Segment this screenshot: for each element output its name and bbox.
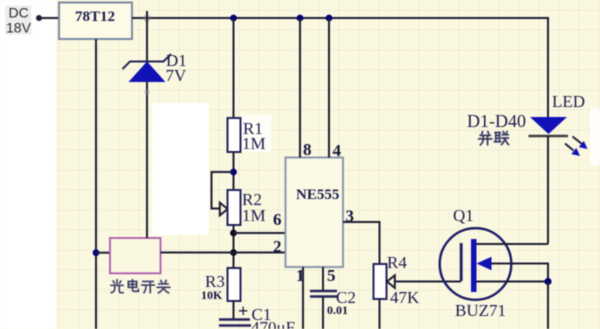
svg-text:18V: 18V	[6, 20, 32, 36]
wire	[233, 301, 235, 319]
svg-text:6: 6	[273, 210, 282, 229]
wire LED cathode to drain	[547, 136, 549, 244]
R2 wiper arrow	[220, 203, 228, 216]
wire	[96, 252, 110, 254]
wire drain	[477, 243, 549, 245]
wire pin 3	[343, 222, 380, 264]
regulator U2 78T12	[59, 3, 132, 40]
wire pin 5	[322, 267, 324, 290]
resistor R1	[228, 118, 241, 152]
svg-text:Q1: Q1	[453, 206, 474, 225]
svg-text:47K: 47K	[390, 288, 420, 307]
svg-text:1M: 1M	[242, 134, 266, 153]
wire pin 6	[234, 232, 286, 234]
node DC input terminal	[36, 15, 42, 21]
transistor Q1 BUZ71	[440, 228, 512, 300]
R4 wiper arrow	[387, 275, 395, 288]
junction	[326, 15, 333, 22]
wire	[379, 299, 381, 329]
IC U1 NE555	[286, 158, 344, 268]
wire	[233, 225, 235, 268]
label C2 0.01	[327, 288, 356, 317]
capacitor C2	[310, 291, 337, 297]
svg-text:78T12: 78T12	[75, 9, 115, 25]
wire pin 2	[161, 252, 286, 254]
label DC 18V	[6, 5, 32, 36]
wire LED anode	[547, 17, 549, 117]
svg-text:1M: 1M	[242, 206, 266, 225]
wire body	[491, 264, 548, 282]
svg-text:8: 8	[303, 140, 312, 159]
resistor R4	[374, 264, 387, 299]
junction	[230, 230, 237, 237]
label 光电开关	[111, 280, 170, 293]
label R3 10K	[201, 272, 225, 302]
label D1 7V	[166, 51, 188, 85]
svg-text:BUZ71: BUZ71	[455, 301, 506, 320]
junction	[93, 249, 100, 256]
photoelectric switch module	[110, 238, 161, 273]
wire R2 wiper loop	[212, 172, 234, 209]
svg-text:DC: DC	[9, 5, 29, 21]
wire	[146, 81, 148, 238]
wire	[547, 282, 549, 329]
wire	[233, 18, 235, 118]
svg-text:3: 3	[346, 207, 355, 226]
svg-text:R4: R4	[387, 253, 407, 272]
wire	[233, 152, 235, 190]
svg-text:7V: 7V	[166, 66, 188, 85]
junction	[230, 249, 237, 256]
junction	[297, 15, 304, 22]
junction	[544, 278, 551, 285]
svg-text:0.01: 0.01	[327, 303, 348, 317]
junction	[230, 169, 237, 176]
wire	[132, 17, 548, 19]
svg-text:1: 1	[296, 266, 305, 285]
wire pin 4	[328, 18, 330, 158]
wire pin 1	[302, 267, 304, 329]
resistor R2	[228, 190, 241, 225]
svg-text:NE555: NE555	[296, 187, 339, 203]
node junction cross	[143, 11, 151, 25]
wire	[322, 297, 324, 329]
capacitor C1 electrolytic	[219, 301, 251, 326]
wire	[146, 18, 148, 62]
svg-text:LED: LED	[552, 92, 585, 111]
svg-text:470μF: 470μF	[251, 318, 295, 329]
label R4 47K	[387, 253, 420, 307]
wire gate	[394, 281, 461, 283]
wire source	[477, 281, 549, 283]
svg-text:5: 5	[327, 266, 336, 285]
node	[144, 89, 150, 95]
svg-text:+: +	[238, 301, 248, 321]
label R2 1M	[242, 190, 266, 225]
wire pin 8	[299, 18, 301, 158]
wire	[41, 17, 59, 19]
svg-text:4: 4	[333, 141, 342, 160]
label R1 1M	[242, 115, 272, 153]
zener diode D1	[123, 54, 172, 82]
svg-text:2: 2	[273, 237, 282, 256]
label C1 470uF	[251, 305, 295, 329]
wire	[95, 39, 97, 329]
svg-text:10K: 10K	[201, 288, 223, 302]
resistor R3	[228, 268, 241, 301]
junction	[230, 15, 237, 22]
svg-text:D1-D40: D1-D40	[467, 111, 526, 131]
label 并联	[479, 132, 509, 145]
LED D1-D40	[529, 117, 588, 156]
